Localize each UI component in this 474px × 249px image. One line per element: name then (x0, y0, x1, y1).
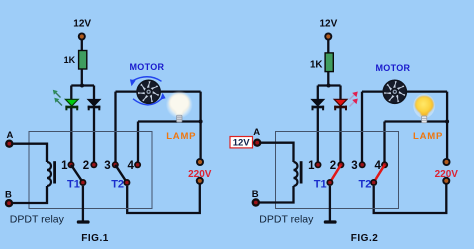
svg-text:MOTOR: MOTOR (130, 62, 165, 72)
relay box outline FIG.2 (276, 132, 399, 209)
contact 3 FIG.2 (359, 161, 366, 168)
wire motor rail right down to 220V terminal FIG.2 (446, 92, 448, 159)
wire resistor R1 to junction (81, 69, 83, 86)
node 220V terminal upper FIG.2 (443, 158, 451, 166)
switch arm T2 to contact 3 FIG.1 (115, 165, 127, 183)
svg-text:12V: 12V (320, 18, 338, 29)
wire motor top rail FIG.2 (362, 90, 447, 92)
wire lamp rail FIG.2 (385, 120, 448, 122)
wire motor rail left down to contact 3 FIG.2 (361, 92, 363, 162)
LED D4 red FIG.2 (334, 99, 347, 110)
node junction FIG.1 (80, 84, 84, 88)
svg-text:A: A (7, 130, 14, 141)
wire lamp rail left down to contact 4 (137, 122, 139, 162)
wire LED D4 cathode to contact 2 FIG.2 (339, 108, 341, 162)
node junction lamp rail with right rail FIG.2 (445, 120, 449, 124)
relay box outline FIG.1 (29, 132, 152, 209)
svg-text:DPDT relay: DPDT relay (259, 214, 314, 226)
node A FIG.1 (5, 140, 13, 148)
svg-text:FIG.1: FIG.1 (81, 233, 109, 244)
svg-text:4: 4 (127, 160, 134, 172)
wire node A to relay coil FIG.1 (13, 144, 47, 162)
contact 4 FIG.1 (134, 161, 141, 168)
LED D1 green FIG.1 (65, 99, 78, 110)
node 12V terminal FIG.1 (78, 33, 86, 41)
diode D2 black FIG.1 (88, 99, 101, 110)
ground symbol FIG.1 (77, 220, 90, 223)
svg-text:A: A (253, 127, 260, 138)
wire T1 pole to ground FIG.1 (82, 186, 84, 221)
node 12V terminal FIG.2 (324, 33, 332, 41)
light emission arrows of LED D4 (red) (350, 94, 356, 107)
wire relay coil to node B FIG.1 (13, 186, 47, 203)
wire junction to diode D2 anode (93, 86, 95, 100)
node junction FIG.2 (327, 84, 331, 88)
svg-text:3: 3 (351, 160, 357, 172)
node 220V terminal lower FIG.1 (196, 177, 204, 185)
lamp L1 (off, white glow) FIG.1 (166, 91, 193, 123)
svg-text:FIG.2: FIG.2 (351, 233, 379, 244)
node 220V terminal upper FIG.1 (196, 158, 204, 166)
ground symbol FIG.2 (324, 220, 337, 223)
wire node A to relay coil FIG.2 (261, 143, 294, 162)
pole T1 FIG.1 (79, 179, 86, 186)
wire motor top rail FIG.1 (116, 90, 201, 92)
light emission arrows of LED D1 (green) (55, 92, 63, 106)
svg-text:LAMP: LAMP (166, 131, 196, 142)
svg-text:2: 2 (83, 160, 89, 172)
wire junction to LED D1 anode (70, 86, 72, 100)
svg-text:MOTOR: MOTOR (376, 63, 411, 73)
pole T1 FIG.2 (326, 179, 333, 186)
svg-text:12V: 12V (73, 18, 91, 29)
svg-text:B: B (252, 189, 259, 200)
relay coil winding FIG.2 (294, 162, 298, 186)
relay coil winding FIG.1 (47, 162, 51, 186)
motor M2 fan icon FIG.2 (382, 78, 408, 105)
contact 1 FIG.2 (315, 161, 322, 168)
svg-text:T2: T2 (111, 178, 124, 190)
resistor R2 1K FIG.2 (325, 53, 333, 72)
contact 3 FIG.1 (112, 161, 119, 168)
wire junction to LED D4 anode (339, 86, 341, 100)
contact 1 FIG.1 (68, 161, 75, 168)
wire motor rail left down to contact 3 (114, 92, 116, 162)
svg-text:1K: 1K (64, 55, 76, 65)
wire junction bar above LED D1 and diode D2 (71, 84, 94, 86)
node junction lamp rail with right rail FIG.1 (199, 120, 203, 124)
wire relay coil to node B FIG.2 (260, 186, 294, 203)
contact 2 FIG.2 (337, 161, 344, 168)
relay coil core bar FIG.1 (53, 161, 56, 183)
node B FIG.1 (5, 199, 13, 207)
node 220V terminal lower FIG.2 (442, 177, 450, 185)
svg-text:DPDT relay: DPDT relay (10, 214, 65, 226)
contact 2 FIG.1 (90, 161, 97, 168)
svg-text:12V: 12V (233, 138, 251, 149)
svg-text:2: 2 (330, 160, 336, 172)
svg-text:1: 1 (61, 160, 68, 172)
svg-text:T1: T1 (67, 178, 80, 190)
switch arm T1 to contact 1 FIG.1 (71, 165, 83, 183)
pole T2 FIG.2 (370, 179, 377, 186)
svg-text:T1: T1 (314, 178, 327, 190)
svg-text:1: 1 (308, 160, 315, 172)
svg-text:3: 3 (104, 160, 110, 172)
wire diode D3 cathode to contact 1 FIG.2 (317, 108, 319, 162)
wire diode D2 cathode to contact 2 (93, 108, 95, 162)
svg-text:T2: T2 (359, 178, 372, 190)
wire 12V node to resistor R1 (81, 40, 83, 51)
resistor R1 1K FIG.1 (79, 51, 87, 70)
wire 220V lower terminal to T2 pole FIG.2 (374, 185, 447, 214)
relay coil core bar FIG.2 (300, 161, 303, 183)
wire LED D1 cathode to contact 1 (70, 108, 72, 162)
wire 12V node to resistor R2 (327, 40, 329, 54)
node A FIG.2 (253, 139, 261, 147)
switch arm T2 to contact 4 (red) FIG.2 (374, 165, 385, 183)
svg-text:1K: 1K (310, 59, 323, 70)
diode D3 black FIG.2 (312, 99, 325, 110)
rotation arrow upper (blue, CCW) FIG.1 (133, 77, 162, 82)
wire junction to diode D3 anode (317, 86, 319, 100)
svg-text:B: B (5, 189, 12, 200)
pole T2 FIG.1 (123, 179, 130, 186)
wire T1 pole to ground FIG.2 (329, 186, 331, 221)
lamp L2 (lit, yellow) FIG.2 (413, 94, 435, 123)
wire 220V lower terminal to T2 pole FIG.1 (127, 185, 200, 214)
wire junction bar above diode D3 and LED D4 (318, 84, 341, 86)
node B FIG.2 (252, 198, 260, 206)
svg-text:LAMP: LAMP (413, 131, 443, 142)
wire lamp rail FIG.1 (138, 120, 201, 122)
motor M1 fan icon FIG.1 (136, 78, 162, 105)
contact 4 FIG.2 (381, 161, 388, 168)
label 12V input box FIG.2 (230, 137, 253, 149)
rotation arrow lower (blue, CCW) FIG.1 (133, 99, 162, 105)
wire motor rail right down to 220V terminal FIG.1 (199, 92, 201, 159)
switch arm T1 to contact 2 (red) FIG.2 (330, 165, 341, 183)
wire lamp rail left down to contact 4 FIG.2 (383, 122, 385, 162)
wire resistor R2 to junction (327, 71, 329, 85)
